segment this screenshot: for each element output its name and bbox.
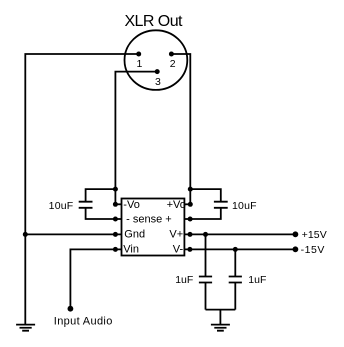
svg-text:-15V: -15V: [301, 244, 325, 256]
pin 3 of XLR: [155, 69, 161, 88]
wire stub U1 V+ pin: [188, 232, 193, 237]
wire stub U1 +Vo pin: [184, 202, 192, 207]
U1 pin label Gnd: [124, 229, 145, 241]
svg-text:- sense +: - sense +: [126, 213, 172, 225]
wire from XLR pin 3 left and down to -Vo: [115, 72, 157, 205]
label "XLR Out": [124, 13, 183, 30]
value label 1uF (C3): [175, 274, 193, 286]
capacitor C2 10uF right plates: [214, 202, 228, 208]
node +15V terminal: [293, 229, 327, 241]
node -15V terminal: [293, 244, 325, 256]
svg-text:1uF: 1uF: [175, 274, 193, 286]
svg-text:XLR Out: XLR Out: [124, 13, 183, 30]
svg-text:3: 3: [155, 76, 161, 88]
wire down to right ground: [219, 310, 221, 325]
junction V- rail to C4: [233, 247, 238, 252]
svg-text:-Vo: -Vo: [123, 199, 140, 211]
svg-text:1: 1: [136, 58, 142, 70]
svg-text:+15V: +15V: [302, 229, 327, 241]
wire stub U1 V- pin: [187, 247, 192, 252]
op-amp U1 balanced line driver body: [122, 199, 185, 256]
U1 pin label - sense +: [126, 213, 172, 225]
wire C1 bottom plate to sense-: [86, 208, 116, 219]
wire stub U1 Vin pin: [113, 247, 118, 252]
svg-text:10uF: 10uF: [232, 200, 257, 212]
wire stub U1 sense+ pin: [184, 217, 192, 222]
svg-text:Gnd: Gnd: [124, 229, 145, 241]
ground symbol left: [16, 325, 35, 331]
value label 10uF (C1): [49, 200, 74, 212]
U1 pin label V+: [169, 229, 183, 241]
wire C1 top plate to pin3 bus: [86, 187, 118, 202]
wire stub U1 -Vo pin: [113, 202, 122, 207]
svg-text:Vin: Vin: [123, 244, 139, 256]
wire stub U1 sense- pin: [113, 217, 122, 222]
U1 pin label +Vo: [167, 199, 186, 211]
wire from XLR pin 1 left and down the ground bus to bottom-left ground: [25, 54, 138, 325]
capacitor C3 1uF left: [199, 234, 212, 309]
U1 pin label Vin: [123, 244, 139, 256]
U1 pin label V-: [173, 244, 184, 256]
U1 pin label -Vo: [123, 199, 140, 211]
XLR connector J1 body: [124, 30, 187, 90]
svg-text:Input Audio: Input Audio: [54, 315, 113, 327]
svg-text:V-: V-: [173, 244, 184, 256]
svg-text:10uF: 10uF: [49, 200, 74, 212]
wire C2 bottom plate to sense+: [190, 208, 221, 219]
wire V+ rail from U1 to +15V terminal: [184, 233, 295, 235]
value label 1uF (C4): [248, 274, 266, 286]
wire stub U1 Gnd pin: [113, 232, 118, 237]
capacitor C4 1uF right: [229, 249, 242, 309]
wire V- rail from U1 to -15V terminal: [184, 248, 295, 250]
wire from XLR pin 2 right and down to +Vo: [171, 54, 190, 204]
value label 10uF (C2): [232, 200, 257, 212]
ground symbol right: [211, 325, 230, 331]
svg-text:V+: V+: [169, 229, 183, 241]
node Input Audio terminal: [54, 306, 113, 328]
svg-text:+Vo: +Vo: [167, 199, 186, 211]
wire Gnd row from left bus to U1: [23, 232, 122, 237]
wire joining C3 and C4 bottoms: [206, 309, 236, 311]
wire Vin from input terminal to U1: [70, 249, 121, 308]
capacitor C1 10uF left plates: [79, 202, 93, 208]
pin 2 of XLR: [169, 52, 176, 70]
junction V+ rail to C3: [203, 232, 208, 237]
svg-text:2: 2: [170, 58, 176, 70]
pin 1 of XLR: [136, 52, 142, 70]
svg-text:1uF: 1uF: [248, 274, 266, 286]
wire C2 top plate to pin2 bus: [188, 187, 221, 202]
